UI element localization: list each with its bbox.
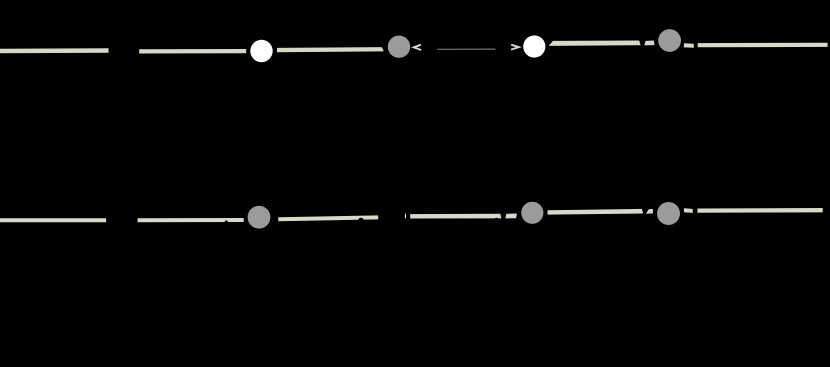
wire row2 seg e (node J to node K), beveled right end <box>548 209 644 215</box>
wire row2 fragment after node K <box>684 208 693 213</box>
wire row1 seg f (node D to right edge) <box>698 43 828 48</box>
node A (white) <box>250 40 272 62</box>
wire row2 fragment before node J <box>505 214 517 219</box>
wire row1 seg d (node C to node D), beveled both ends <box>549 41 641 46</box>
arrowhead nick on seg b <box>225 221 228 224</box>
node I (gray) <box>248 206 271 229</box>
node D (gray) <box>658 29 681 52</box>
node U2 (hidden black node in gap) <box>379 201 410 232</box>
wire row2 wedge fragment before node K <box>646 209 653 214</box>
wire shaft B-C (dim) <box>437 48 495 50</box>
wire row2 seg c (node I to hidden node U2) <box>278 217 378 219</box>
node B (gray) <box>388 36 410 58</box>
wire row2 seg b (hidden node U1 to node I) <box>138 218 244 222</box>
wire row1 seg b (hidden node T1 to node A) <box>139 49 246 54</box>
arrowhead open-left at node B <box>414 45 421 50</box>
arrowhead bump on seg d <box>494 218 500 224</box>
node U1 (hidden black node in gap) <box>106 205 137 236</box>
arrowhead tick after hidden node U2 <box>405 214 406 219</box>
node K (gray) <box>657 202 680 225</box>
wire row2 seg f (node K to right edge) <box>697 208 822 213</box>
node C (white) <box>523 35 545 57</box>
wire row2 seg a (left edge to hidden node U1) <box>0 218 106 222</box>
wire row1 fragment before node D <box>644 41 654 46</box>
wire row1 seg a (left edge to hidden node T1) <box>0 48 109 53</box>
arrowhead bump on seg c <box>358 218 364 224</box>
node J (gray) <box>521 202 543 224</box>
node T1 (hidden black node in gap) <box>109 36 139 66</box>
wire row1 fragment after node D <box>684 43 694 48</box>
arrowhead open-right at node C <box>511 45 519 50</box>
wire row1 seg c (node A to node B), beveled right end <box>277 47 384 52</box>
wire row2 seg d (hidden node U2 to node J), beveled right end <box>410 214 501 219</box>
